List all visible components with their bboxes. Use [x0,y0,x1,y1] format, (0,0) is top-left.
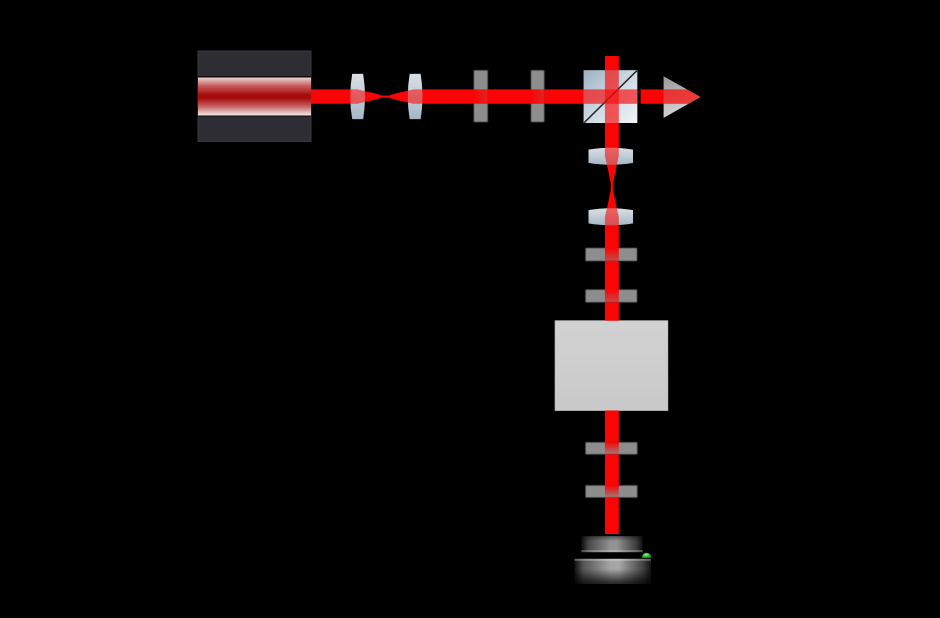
objective upper cylinder [581,536,642,552]
scan unit gray box [555,321,668,411]
filter plate F6 [586,485,638,497]
filter plate F3 [586,248,638,261]
laser housing [198,51,311,141]
lens L4 (vertical telescope lower) [589,208,634,225]
beam: vertical across cube [605,70,619,123]
beam: vertical fade across F3 [605,248,619,261]
filter plate F1 [474,70,488,122]
lens L1 (beam expander input) [350,74,365,119]
lens L1 ghost tint over beam [350,74,365,119]
lens L4 ghost tint over beam [589,208,634,225]
lens L2 ghost tint over beam [408,74,423,119]
objective upper cylinder rim highlight [581,550,642,552]
beam: vertical between F3 and F4 [605,261,619,290]
beam: horizontal fade across F1 [474,89,488,103]
beam: vertical F6 to objective [605,498,619,535]
beam: vertical stub above cube [605,56,619,70]
laser cavity slot (black) [198,76,311,116]
laser gain medium glow stripe [198,78,311,116]
beam: vertical fade across F6 [605,485,619,497]
beam: horizontal fade across F2 [531,89,544,103]
beam: horizontal from F2 to cube [544,89,583,103]
filter plate F5 [586,442,638,454]
lens L2 (beam expander output) [408,74,423,119]
beam: horizontal between F1 and F2 [488,89,531,103]
beam: horizontal from cube to arrow [641,89,664,103]
beamsplitter diagonal [584,71,637,123]
specimen bead (green) [642,553,651,558]
objective upper cylinder top shade [581,536,642,541]
filter plate F4 [586,290,638,303]
beam: vertical fade across F4 [605,290,619,303]
lens L3 ghost tint over beam [589,148,634,165]
beam: vertical between F5 and F6 [605,454,619,485]
filter plate F2 [531,70,544,122]
beamsplitter ghost tint over beams [584,70,638,123]
beam: vertical scan box to F5 [605,411,619,443]
lens L3 (vertical telescope upper) [589,148,634,165]
beam: vertical cube to F3 through L3/L4 with focus [605,123,619,248]
beamsplitter diagonal over beams [584,71,637,123]
objective lower cylinder [574,559,651,584]
objective lower cylinder rim highlight [574,559,651,561]
beam: red fill inside output arrow [664,89,701,103]
beam: horizontal across cube [584,89,638,103]
beamsplitter cube [584,70,638,123]
beam crossing emphasis inside cube [605,89,619,103]
beam: horizontal from laser through L1/L2 with focus [311,89,474,103]
beam: vertical fade across F5 [605,442,619,454]
output arrow triangle [664,76,701,118]
beam: vertical F4 to scan box [605,302,619,320]
objective lower cylinder bottom shade [574,569,651,584]
